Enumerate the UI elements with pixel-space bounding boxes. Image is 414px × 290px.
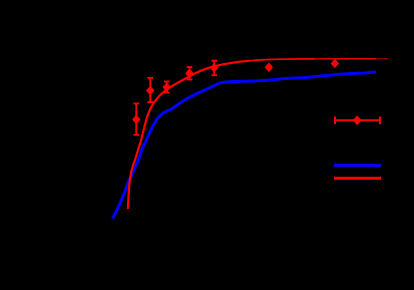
legend entry 1: red error-bar marker [334, 117, 381, 125]
legend entry 1 diamond [353, 115, 362, 125]
data point 6 diamond [265, 63, 273, 73]
data point 3 diamond [163, 83, 171, 93]
red fit curve [128, 61, 250, 209]
data point 7 diamond [331, 59, 339, 69]
red fit curve right segment [315, 58, 376, 60]
data point 1 diamond [132, 115, 140, 125]
legend entry 3: red line [334, 177, 381, 180]
red fit curve mid segment [250, 59, 315, 61]
data point 3 error bar [164, 82, 170, 93]
legend entry 2: blue line [334, 164, 381, 167]
red fit curve thin tail [376, 58, 388, 60]
blue curve [113, 72, 376, 219]
data point 5 error bar [211, 61, 217, 75]
data point 1 error bar [134, 104, 140, 135]
data point 2 error bar [148, 78, 154, 102]
data point 4 diamond [185, 69, 193, 79]
data point 2 diamond [146, 86, 154, 96]
data point 4 error bar [187, 67, 193, 79]
data point 5 diamond [210, 63, 218, 73]
